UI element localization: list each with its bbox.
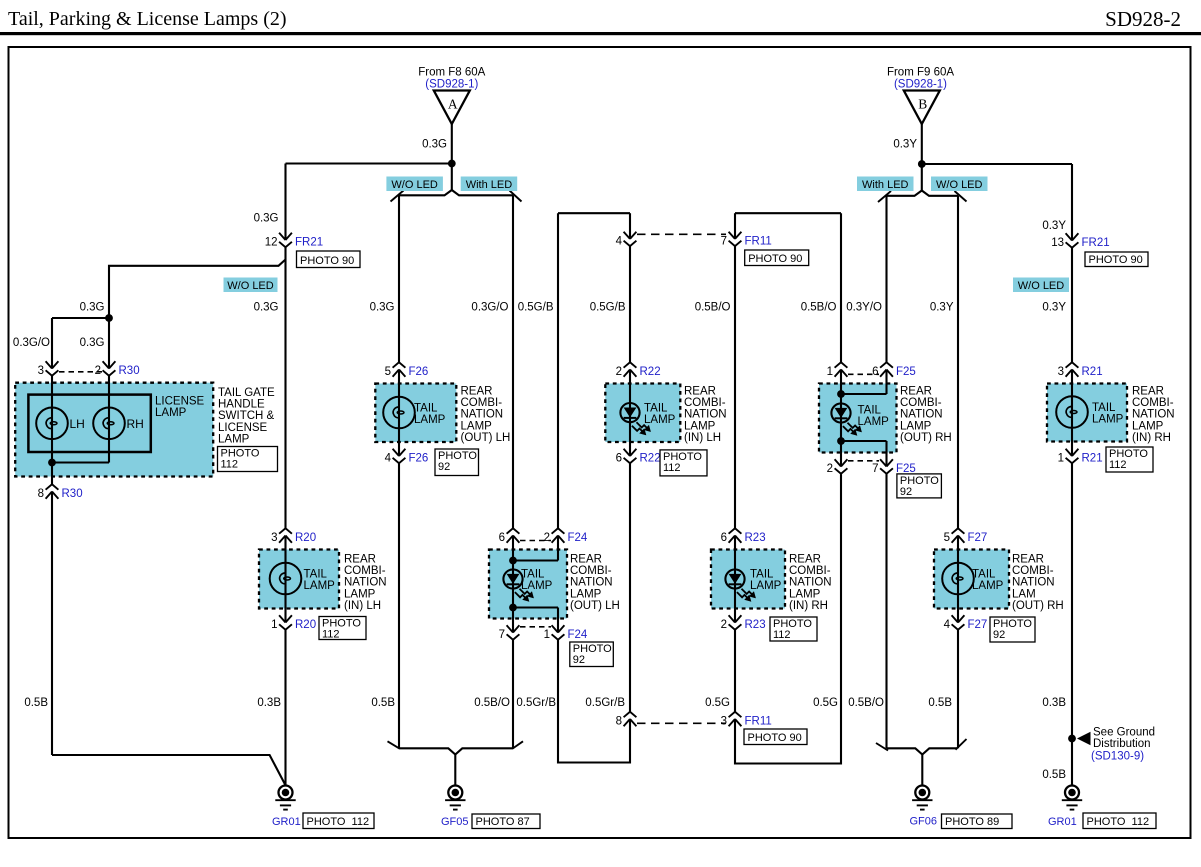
- svg-text:LAMP: LAMP: [344, 588, 376, 600]
- wire F27 to ground bus: [957, 630, 959, 749]
- svg-text:PHOTO 90: PHOTO 90: [1089, 254, 1143, 266]
- wire F24 pin2 into box: [557, 536, 559, 561]
- wire junction A to FR21 branch: [286, 162, 452, 164]
- svg-text:0.3Y: 0.3Y: [930, 302, 954, 314]
- wire FR11 pin7 down to R23: [734, 246, 736, 528]
- connector F25 pin 1: [835, 370, 848, 377]
- ground bus GF05: [399, 748, 513, 754]
- svg-text:LAMP: LAMP: [304, 580, 336, 592]
- svg-text:R22: R22: [640, 366, 661, 378]
- wire F25 pin6 into box: [885, 370, 887, 395]
- wire F24 pin1 out of box: [557, 608, 559, 633]
- svg-text:2: 2: [721, 619, 727, 631]
- svg-text:F27: F27: [968, 532, 988, 544]
- svg-text:LAMP: LAMP: [1092, 414, 1124, 426]
- see ground arrow: [1077, 732, 1091, 745]
- ground bus GF06: [887, 748, 958, 754]
- svg-text:3: 3: [271, 532, 277, 544]
- svg-text:112: 112: [663, 462, 681, 474]
- svg-text:0.5B/O: 0.5B/O: [801, 302, 837, 314]
- svg-text:COMBI-: COMBI-: [684, 397, 726, 409]
- wire F25 internal bottom: [841, 440, 887, 442]
- svg-text:7: 7: [499, 629, 505, 641]
- photo box PHOTO 92 (F25): [897, 474, 942, 498]
- svg-text:LICENSE: LICENSE: [218, 422, 268, 434]
- svg-text:2: 2: [544, 532, 550, 544]
- connector mating line F24 7-1: [520, 626, 551, 628]
- connector R23 pin 6: [729, 536, 742, 543]
- connector R20 pin 3: [279, 536, 292, 543]
- svg-text:NATION: NATION: [461, 409, 504, 421]
- wire to license pin 2: [108, 318, 110, 369]
- svg-text:3: 3: [721, 716, 727, 728]
- wire A fork right branch: [452, 190, 513, 195]
- svg-text:GR01: GR01: [272, 816, 301, 828]
- svg-text:0.5B: 0.5B: [371, 697, 395, 709]
- svg-text:3: 3: [38, 365, 44, 377]
- photo box PHOTO 89 (GF06): [942, 814, 1013, 829]
- svg-text:6: 6: [499, 532, 505, 544]
- svg-text:112: 112: [322, 629, 340, 641]
- svg-text:REAR: REAR: [1132, 386, 1164, 398]
- svg-text:2: 2: [827, 463, 833, 475]
- svg-text:(OUT) RH: (OUT) RH: [900, 432, 952, 444]
- svg-text:NATION: NATION: [789, 577, 832, 589]
- wire license pin2 into lamp RH: [108, 376, 110, 463]
- svg-text:REAR: REAR: [570, 554, 602, 566]
- svg-text:92: 92: [573, 654, 585, 666]
- wire F25 pin1 shaft: [840, 370, 842, 467]
- svg-text:NATION: NATION: [344, 577, 387, 589]
- bus tick left GF06: [876, 743, 888, 751]
- wire F26 to ground bus: [398, 463, 400, 748]
- connector F24 pin 7: [507, 625, 520, 632]
- svg-text:(IN) RH: (IN) RH: [1132, 432, 1171, 444]
- option label W/O LED (A left): [386, 177, 443, 192]
- connector mating line FR11 4-7: [637, 233, 726, 235]
- svg-text:Distribution: Distribution: [1093, 738, 1151, 750]
- svg-text:1: 1: [544, 629, 550, 641]
- svg-text:R21: R21: [1082, 366, 1103, 378]
- svg-text:TAIL: TAIL: [521, 569, 545, 581]
- svg-text:0.5G: 0.5G: [813, 697, 838, 709]
- wire FR21-13 to R21: [1071, 248, 1073, 362]
- bus tick right GF05: [513, 741, 524, 748]
- svg-text:LAMP: LAMP: [972, 580, 1004, 592]
- svg-text:0.3B: 0.3B: [1042, 697, 1066, 709]
- svg-text:REAR: REAR: [461, 386, 493, 398]
- connector F24 pin 2: [552, 536, 565, 543]
- wire license ground horizontal: [52, 755, 286, 785]
- connector R22 pin 2: [624, 370, 637, 377]
- svg-text:0.5Gr/B: 0.5Gr/B: [516, 697, 556, 709]
- svg-text:LAMP: LAMP: [414, 414, 446, 426]
- svg-text:(OUT) LH: (OUT) LH: [461, 432, 511, 444]
- svg-text:F25: F25: [896, 366, 916, 378]
- svg-text:0.3G/O: 0.3G/O: [471, 302, 508, 314]
- led R22: [620, 403, 639, 422]
- svg-text:(SD928-1): (SD928-1): [894, 79, 947, 91]
- connector F24 pin 6: [507, 536, 520, 543]
- svg-text:F26: F26: [409, 366, 429, 378]
- wire F24 pin1 to FR11 pin8 loop: [558, 640, 630, 763]
- node F25 bottom: [837, 437, 845, 445]
- svg-text:W/O LED: W/O LED: [936, 179, 983, 191]
- photo box PHOTO 87 (GF05): [472, 814, 540, 829]
- connector R21 pin 1: [1066, 449, 1079, 456]
- svg-text:(SD928-1): (SD928-1): [425, 79, 478, 91]
- wire R21 to ground GR01 right: [1071, 463, 1073, 785]
- svg-text:PHOTO 112: PHOTO 112: [307, 816, 370, 828]
- connector FR11 pin 4: [624, 232, 637, 239]
- wire license common to R30 pin 8: [51, 463, 53, 485]
- option label W/O LED (B right): [931, 177, 988, 192]
- wire A fork left branch: [399, 190, 452, 195]
- svg-text:R21: R21: [1082, 453, 1103, 465]
- svg-text:REAR: REAR: [900, 386, 932, 398]
- svg-text:GF06: GF06: [910, 816, 938, 828]
- connector mating line F25 1-6: [848, 373, 879, 375]
- wire F25 internal top: [841, 393, 887, 395]
- connector F27 pin 4: [952, 615, 965, 622]
- wire triangle B to junction: [921, 124, 923, 164]
- wire fork A left to F26: [398, 195, 400, 362]
- connector F26 pin 4: [393, 449, 406, 456]
- photo box PHOTO 90 (FR11 bottom): [744, 729, 807, 745]
- svg-text:8: 8: [616, 716, 622, 728]
- svg-text:FR21: FR21: [295, 237, 323, 249]
- wire to license pin 3: [51, 318, 53, 369]
- svg-text:0.3Y: 0.3Y: [1042, 302, 1066, 314]
- wire R22 pin6 to FR11 pin 8: [629, 463, 631, 712]
- svg-text:W/O LED: W/O LED: [227, 280, 274, 292]
- power triangle A: [434, 91, 470, 125]
- svg-text:92: 92: [900, 486, 912, 498]
- svg-text:92: 92: [438, 461, 450, 473]
- component box F27 tail lamp: [934, 550, 1009, 609]
- svg-text:GF05: GF05: [441, 816, 469, 828]
- photo box PHOTO 112 (R21): [1106, 447, 1153, 472]
- wire F24 internal top: [513, 559, 558, 561]
- ground GR01 right: [1065, 786, 1079, 800]
- component box F26 tail lamp: [375, 384, 456, 443]
- svg-text:R22: R22: [640, 453, 661, 465]
- wire to F25 pin 1: [840, 213, 842, 362]
- svg-text:See Ground: See Ground: [1093, 727, 1155, 739]
- wire fork B left to F25 pin 6: [885, 196, 887, 362]
- photo box PHOTO 112 (GR01 right): [1083, 813, 1156, 829]
- svg-text:0.3G: 0.3G: [422, 139, 447, 151]
- svg-text:8: 8: [38, 488, 44, 500]
- wire F24 pin6 shaft: [512, 536, 514, 633]
- svg-text:LAMP: LAMP: [789, 588, 821, 600]
- svg-text:NATION: NATION: [900, 409, 943, 421]
- svg-text:R23: R23: [745, 619, 766, 631]
- connector FR11 pin 7: [729, 232, 742, 239]
- wire FR11 pin4 down to R22: [629, 246, 631, 362]
- svg-text:TAIL: TAIL: [414, 403, 438, 415]
- photo box PHOTO 112 (R20): [319, 617, 366, 640]
- svg-text:TAIL: TAIL: [750, 569, 774, 581]
- svg-text:R30: R30: [119, 365, 140, 377]
- svg-text:0.5Gr/B: 0.5Gr/B: [585, 697, 625, 709]
- svg-text:TAIL: TAIL: [972, 569, 996, 581]
- connector mating line F25 2-7: [848, 460, 879, 462]
- node junction B: [918, 160, 926, 168]
- svg-text:0.3G/O: 0.3G/O: [13, 337, 50, 349]
- svg-text:F24: F24: [568, 629, 588, 641]
- svg-text:0.3B: 0.3B: [257, 697, 281, 709]
- svg-text:A: A: [448, 97, 458, 112]
- lamp bulb R20: [270, 563, 302, 595]
- lamp bulb F26: [383, 397, 415, 429]
- svg-text:W/O LED: W/O LED: [391, 179, 438, 191]
- connector F25 pin 7: [880, 459, 893, 466]
- svg-text:NATION: NATION: [1132, 409, 1175, 421]
- svg-text:NATION: NATION: [684, 409, 727, 421]
- svg-text:FR11: FR11: [745, 716, 772, 728]
- svg-text:TAIL GATE: TAIL GATE: [218, 387, 275, 399]
- connector mating line FR11 8-3: [637, 722, 726, 724]
- svg-text:F25: F25: [896, 463, 916, 475]
- lamp bulb RH: [93, 408, 125, 440]
- svg-text:COMBI-: COMBI-: [461, 397, 503, 409]
- wire F25 pin7 out of box: [885, 441, 887, 467]
- svg-text:From F8 60A: From F8 60A: [418, 67, 485, 79]
- svg-text:REAR: REAR: [684, 386, 716, 398]
- led R23: [725, 569, 744, 588]
- svg-text:1: 1: [827, 366, 833, 378]
- wire fork A right to F24 pin 6: [512, 195, 514, 528]
- wire R23 pin2 to FR11 pin 3: [734, 630, 736, 712]
- svg-text:0.3G: 0.3G: [254, 302, 279, 314]
- led F24: [503, 569, 522, 588]
- svg-text:RH: RH: [127, 417, 144, 431]
- svg-text:R20: R20: [295, 532, 316, 544]
- wire license junction horizontal: [52, 317, 109, 319]
- wire A fork stem: [451, 162, 453, 190]
- option label With LED (A right): [461, 177, 518, 192]
- svg-text:SWITCH &: SWITCH &: [218, 410, 275, 422]
- svg-text:COMBI-: COMBI-: [1012, 565, 1054, 577]
- svg-text:PHOTO 87: PHOTO 87: [476, 816, 530, 828]
- led F25: [831, 403, 850, 422]
- node license lamp common: [48, 459, 56, 467]
- svg-text:12: 12: [265, 237, 278, 249]
- connector R30 pin 2: [103, 361, 116, 368]
- fork tick left B: [878, 191, 891, 202]
- svg-text:PHOTO 112: PHOTO 112: [1087, 816, 1150, 828]
- ground GF06: [915, 786, 929, 800]
- connector R20 pin 1: [279, 615, 292, 622]
- svg-text:COMBI-: COMBI-: [1132, 397, 1174, 409]
- connector mating line F24 6-2: [520, 540, 551, 542]
- svg-text:F24: F24: [568, 532, 588, 544]
- wire F24 pin 7 to ground bus: [512, 640, 514, 749]
- svg-text:112: 112: [1109, 459, 1127, 471]
- lamp bulb F27: [942, 563, 974, 595]
- svg-text:4: 4: [616, 235, 623, 247]
- svg-text:0.5B: 0.5B: [1042, 769, 1066, 781]
- component box R23 tail lamp: [711, 550, 785, 609]
- svg-text:3: 3: [1058, 366, 1064, 378]
- svg-text:(SD130-9): (SD130-9): [1091, 751, 1144, 763]
- wire B fork stem: [921, 162, 923, 191]
- svg-text:TAIL: TAIL: [858, 405, 882, 417]
- wire through F26: [398, 370, 400, 457]
- connector R22 pin 6: [624, 449, 637, 456]
- svg-text:COMBI-: COMBI-: [570, 565, 612, 577]
- connector R21 pin 3: [1066, 370, 1079, 377]
- license lamp inner case: [28, 395, 150, 452]
- title rule: [0, 32, 1201, 35]
- connector R30 pin 8: [46, 492, 59, 499]
- option label With LED (B left): [857, 177, 914, 192]
- svg-text:TAIL: TAIL: [304, 569, 328, 581]
- svg-text:0.3G: 0.3G: [254, 213, 279, 225]
- wire branch to license lamp: [109, 260, 286, 319]
- photo box PHOTO 112 (license): [218, 447, 278, 472]
- wire junction B to FR21-13 branch: [922, 163, 1072, 165]
- svg-text:LAMP: LAMP: [521, 580, 553, 592]
- connector mating line R30 2-3: [59, 371, 102, 373]
- wire through F27: [957, 536, 959, 623]
- wire license lamp common: [52, 461, 109, 463]
- connector F24 pin 1: [552, 625, 565, 632]
- svg-text:R23: R23: [745, 532, 766, 544]
- option label W/O LED (license): [224, 278, 278, 293]
- svg-text:FR21: FR21: [1082, 237, 1110, 249]
- svg-text:LAMP: LAMP: [155, 407, 187, 419]
- svg-text:6: 6: [721, 532, 727, 544]
- svg-text:5: 5: [944, 532, 950, 544]
- svg-text:LAMP: LAMP: [570, 588, 602, 600]
- component box F24 tail lamp: [489, 550, 567, 619]
- svg-text:PHOTO 90: PHOTO 90: [748, 732, 802, 744]
- wire F25 pin7 to ground bus: [885, 474, 887, 749]
- ground GF05: [448, 786, 462, 800]
- svg-text:LH: LH: [70, 417, 85, 431]
- node license branch junction: [105, 314, 113, 322]
- svg-text:4: 4: [944, 619, 951, 631]
- svg-text:Tail, Parking & License Lamps: Tail, Parking & License Lamps (2): [8, 8, 287, 30]
- svg-text:TAIL: TAIL: [644, 403, 668, 415]
- svg-text:(IN) LH: (IN) LH: [344, 600, 381, 612]
- wire fork B right to F27: [957, 196, 959, 528]
- node F25 top: [837, 390, 845, 398]
- component box tail gate handle switch and license lamp: [15, 383, 213, 477]
- svg-text:REAR: REAR: [1012, 554, 1044, 566]
- photo box PHOTO 92 (F24): [570, 642, 614, 667]
- svg-text:From F9 60A: From F9 60A: [887, 67, 954, 79]
- wire FR11 pin3 to F25 loop: [735, 474, 841, 763]
- svg-text:GR01: GR01: [1048, 816, 1077, 828]
- svg-text:R30: R30: [62, 488, 83, 500]
- bus tick left GF05: [388, 741, 400, 748]
- svg-text:1: 1: [271, 619, 277, 631]
- svg-text:6: 6: [872, 366, 878, 378]
- svg-text:F26: F26: [409, 453, 429, 465]
- connector FR11 pin 8: [624, 719, 637, 726]
- wire R20 to ground GR01: [284, 630, 286, 786]
- wire down to F24 pin 2: [557, 213, 559, 528]
- svg-text:With LED: With LED: [466, 179, 513, 191]
- svg-text:F27: F27: [968, 619, 988, 631]
- wire F24 internal bottom: [513, 606, 558, 608]
- lamp bulb R21: [1056, 396, 1088, 428]
- connector F25 pin 2: [835, 459, 848, 466]
- svg-text:5: 5: [385, 366, 391, 378]
- node see-ground junction: [1068, 735, 1076, 743]
- svg-text:0.5B: 0.5B: [928, 697, 952, 709]
- svg-text:SD928-2: SD928-2: [1105, 7, 1181, 31]
- wire license pin3 into lamp LH: [51, 376, 53, 463]
- svg-text:0.5B: 0.5B: [24, 697, 48, 709]
- svg-text:(OUT) RH: (OUT) RH: [1012, 600, 1064, 612]
- svg-text:LAMP: LAMP: [1132, 420, 1164, 432]
- svg-text:0.3Y/O: 0.3Y/O: [846, 302, 882, 314]
- svg-text:0.5B/O: 0.5B/O: [695, 302, 731, 314]
- svg-text:PHOTO 90: PHOTO 90: [300, 255, 354, 267]
- photo box PHOTO 92 (F26): [435, 449, 479, 476]
- fork tick right B: [955, 191, 967, 202]
- power triangle B: [904, 91, 940, 125]
- svg-text:0.3G: 0.3G: [80, 337, 105, 349]
- svg-text:B: B: [918, 97, 927, 112]
- connector FR11 pin 3: [729, 719, 742, 726]
- svg-text:6: 6: [616, 453, 622, 465]
- wire through R22: [629, 370, 631, 457]
- svg-text:LICENSE: LICENSE: [155, 396, 205, 408]
- connector FR21 pin 13: [1066, 233, 1079, 240]
- wire FR21-12 to R20: [284, 247, 286, 528]
- svg-text:0.3G: 0.3G: [370, 302, 395, 314]
- svg-text:LAMP: LAMP: [644, 414, 676, 426]
- svg-text:PHOTO 90: PHOTO 90: [748, 253, 802, 265]
- svg-text:(OUT) LH: (OUT) LH: [570, 600, 620, 612]
- svg-text:4: 4: [385, 453, 392, 465]
- wire top loop 735-841: [735, 212, 841, 214]
- photo box PHOTO 92 (F27): [990, 617, 1035, 642]
- wire triangle A to junction: [451, 124, 453, 164]
- svg-text:LAMP: LAMP: [684, 420, 716, 432]
- connector F27 pin 5: [952, 536, 965, 543]
- svg-text:0.3G: 0.3G: [80, 302, 105, 314]
- bus tick right GF06: [956, 739, 967, 750]
- photo box PHOTO 90 (FR21-13): [1085, 252, 1148, 267]
- svg-text:NATION: NATION: [1012, 577, 1055, 589]
- wire GF05 stem: [454, 754, 456, 785]
- svg-text:1: 1: [1058, 453, 1064, 465]
- wire junction B down to FR21 pin 13: [1071, 164, 1073, 241]
- svg-text:COMBI-: COMBI-: [344, 565, 386, 577]
- component box R21 tail lamp: [1047, 384, 1127, 442]
- svg-text:LAMP: LAMP: [900, 420, 932, 432]
- svg-text:HANDLE: HANDLE: [218, 399, 265, 411]
- svg-text:92: 92: [993, 629, 1005, 641]
- svg-text:LAMP: LAMP: [461, 420, 493, 432]
- svg-text:FR11: FR11: [745, 235, 772, 247]
- svg-text:13: 13: [1051, 237, 1064, 249]
- ground GR01 left: [279, 786, 293, 800]
- svg-text:0.5G/B: 0.5G/B: [518, 302, 554, 314]
- svg-text:REAR: REAR: [789, 554, 821, 566]
- photo box PHOTO 112 (GR01 left): [303, 813, 374, 829]
- svg-text:With LED: With LED: [862, 179, 909, 191]
- wire through R23: [734, 536, 736, 623]
- option label W/O LED (R21): [1013, 278, 1069, 293]
- svg-text:LAM: LAM: [1012, 588, 1036, 600]
